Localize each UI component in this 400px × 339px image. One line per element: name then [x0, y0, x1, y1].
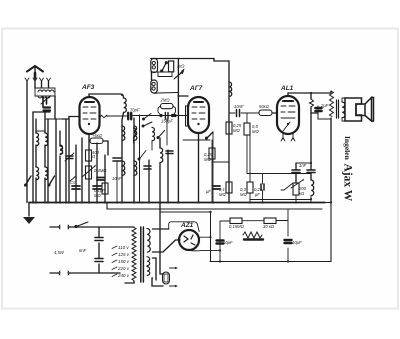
svg-text:6nF: 6nF: [79, 248, 87, 253]
svg-text:0,15МΩ: 0,15МΩ: [229, 224, 245, 229]
svg-text:10μF: 10μF: [223, 240, 233, 245]
svg-text:2МΩ: 2МΩ: [160, 98, 171, 103]
svg-text:150pF: 150pF: [161, 119, 173, 124]
svg-text:МΩ: МΩ: [204, 157, 211, 162]
svg-text:125 v: 125 v: [118, 252, 130, 257]
svg-text:МΩ: МΩ: [252, 129, 259, 134]
svg-text:30 кΩ: 30 кΩ: [263, 224, 275, 229]
svg-text:Cs: Cs: [70, 180, 76, 185]
svg-text:220 v: 220 v: [117, 266, 130, 271]
svg-text:10nF: 10nF: [234, 104, 244, 109]
svg-text:150 v: 150 v: [118, 259, 130, 264]
svg-text:2μF: 2μF: [320, 103, 329, 108]
svg-text:Ajax W: Ajax W: [342, 164, 354, 202]
svg-text:240 v: 240 v: [117, 273, 130, 278]
svg-text:МΩ: МΩ: [94, 193, 101, 198]
svg-text:0,4МΩ: 0,4МΩ: [94, 168, 107, 173]
svg-text:10nF: 10nF: [112, 176, 122, 181]
svg-text:2кΩ: 2кΩ: [176, 64, 185, 69]
svg-text:+6кΩ: +6кΩ: [92, 133, 103, 138]
svg-text:АF3: АF3: [81, 84, 95, 91]
svg-text:10μF: 10μF: [292, 240, 302, 245]
svg-text:1nF: 1nF: [299, 163, 307, 168]
svg-text:4,5W: 4,5W: [54, 250, 65, 255]
svg-text:МΩ: МΩ: [240, 192, 247, 197]
svg-text:МΩ: МΩ: [219, 192, 226, 197]
svg-text:AL1: AL1: [280, 85, 294, 92]
svg-text:АГ7: АГ7: [189, 85, 203, 92]
svg-text:AZ1: AZ1: [180, 222, 194, 229]
svg-text:μF: μF: [205, 189, 211, 194]
svg-text:МΩ: МΩ: [233, 128, 240, 133]
svg-text:70pF: 70pF: [130, 108, 140, 113]
svg-text:50кΩ: 50кΩ: [259, 104, 270, 109]
svg-text:μF: μF: [254, 192, 260, 197]
svg-text:Ingelen: Ingelen: [343, 136, 352, 161]
svg-text:кΩ: кΩ: [299, 191, 305, 196]
svg-text:110 v: 110 v: [118, 245, 129, 250]
